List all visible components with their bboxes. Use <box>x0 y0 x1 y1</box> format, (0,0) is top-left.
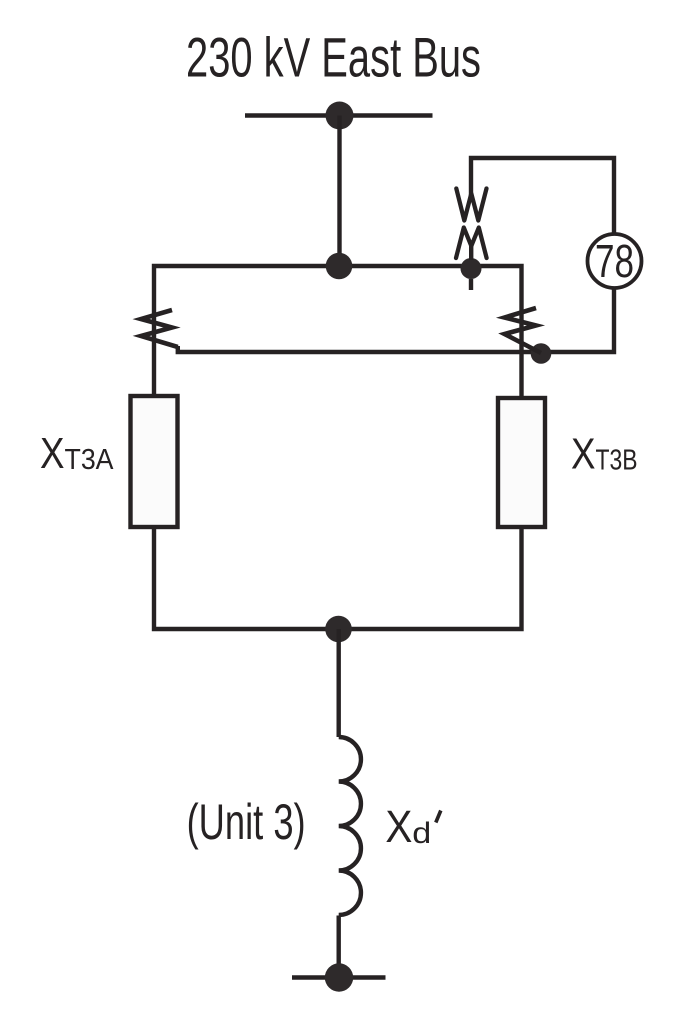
node: relay tap dot <box>461 258 482 279</box>
node: collector junction dot <box>325 616 352 643</box>
svg-text:78: 78 <box>595 235 634 287</box>
svg-text:d: d <box>412 817 431 850</box>
label: prime mark <box>436 811 441 823</box>
svg-text:230 kV East Bus: 230 kV East Bus <box>186 26 481 89</box>
inductor Xd' coil <box>339 737 361 915</box>
wire: stub below relay tap <box>469 279 473 290</box>
breaker zigzag left <box>141 310 178 347</box>
svg-text:X: X <box>385 801 412 852</box>
svg-text:T3B: T3B <box>596 445 638 477</box>
contact W (upper chevrons) <box>456 189 486 221</box>
node: header junction dot <box>326 253 353 280</box>
wire: bottom collector rail <box>154 526 522 629</box>
node: bus junction dot <box>326 102 354 130</box>
svg-text:T3A: T3A <box>65 444 115 476</box>
node: transfer tap dot <box>531 343 552 364</box>
svg-text:X: X <box>40 429 65 478</box>
wire: 78 down and across transfer line <box>178 289 614 353</box>
reactance box XT3B <box>498 398 545 527</box>
wire: coil to terminal <box>337 916 341 978</box>
node: terminal dot <box>325 963 353 991</box>
wire: generator lead <box>337 629 341 737</box>
svg-text:X: X <box>571 430 596 479</box>
wire: relay loop up and across to 78 <box>471 158 614 234</box>
contact M (lower chevrons) <box>456 228 487 259</box>
svg-text:(Unit 3): (Unit 3) <box>187 794 306 850</box>
wire: stub M valley to tap dot <box>469 244 473 260</box>
reactance box XT3A <box>131 396 178 527</box>
relay 78 circle <box>588 234 642 288</box>
breaker zigzag right <box>505 308 542 353</box>
wire: bus drop vertical <box>337 116 341 267</box>
wire: top bus horizontal <box>245 113 433 117</box>
wire: middle header with branch verticals <box>154 266 522 398</box>
wire: terminal crossbar <box>292 975 386 979</box>
